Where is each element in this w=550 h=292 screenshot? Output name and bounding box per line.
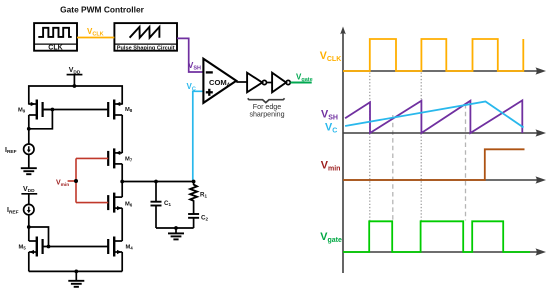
ground under IREF top [21, 168, 37, 174]
ground RC [168, 233, 184, 239]
capacitor C1 [151, 182, 172, 229]
node VC RC [192, 180, 196, 184]
node Vmin [74, 179, 78, 183]
svg-text:M7: M7 [125, 157, 133, 163]
svg-text:M9: M9 [18, 108, 26, 114]
node M7/M6 drain [120, 180, 124, 184]
transistor M8 [108, 100, 133, 120]
node C1 top [154, 180, 158, 184]
wire node rail to RC [122, 181, 193, 183]
transistor M9 [18, 100, 52, 120]
wire RC bottom rail [156, 227, 194, 229]
dashed line clk edge 2 [420, 73, 422, 221]
wire M7 drain to node [121, 164, 123, 197]
node gate M9 [51, 108, 55, 112]
svg-text:Gate PWM Controller: Gate PWM Controller [60, 5, 144, 15]
capacitor C2 [188, 214, 208, 228]
resistor R1 [190, 182, 207, 215]
wire to RC ground [175, 228, 177, 233]
dashed line crossing 1 [392, 115, 394, 221]
node RC ground [174, 226, 178, 230]
CLK block [34, 23, 77, 51]
wire M4 source to rail [121, 252, 123, 271]
waveform Vgate [343, 221, 530, 252]
VDD supply bottom [21, 186, 37, 205]
axis VSH/VC [343, 129, 546, 136]
current source IREF top [5, 144, 34, 155]
wire VC (cyan) [187, 82, 204, 182]
axis vertical [340, 27, 346, 274]
wire VSH (purple) [177, 38, 203, 72]
wire M5 diode loop [29, 227, 49, 247]
inverter 1 [247, 73, 266, 93]
wire VDD rail [29, 86, 122, 105]
VDD supply top [67, 67, 83, 86]
svg-text:sharpening: sharpening [249, 110, 284, 118]
node M9 drain [27, 127, 31, 131]
waveform VC ramp [345, 102, 523, 128]
wire IREF to ground [28, 154, 30, 168]
transistor M4 [108, 237, 133, 257]
current source IREF bottom [7, 204, 34, 215]
transistor M7 [108, 148, 133, 168]
wire M6 source to M4 drain [121, 208, 123, 241]
node VDD rail top [73, 84, 77, 88]
op-amp COM4 comparator [203, 59, 236, 103]
wire Vgate output (green) [290, 73, 312, 84]
wire M5 source to rail [28, 252, 30, 271]
waveform Vmin [343, 149, 525, 180]
node M5 drain [27, 225, 31, 229]
ground bottom rail [68, 281, 84, 287]
wire M8 drain to M7 source [121, 115, 123, 153]
wire VCLK [77, 27, 114, 38]
svg-text:CLK: CLK [48, 45, 62, 52]
transistor M6 [108, 193, 133, 213]
wire between inverters [267, 82, 273, 84]
svg-text:M5: M5 [19, 245, 27, 251]
transistor M5 [19, 237, 43, 257]
wire comparator output [236, 81, 247, 83]
node bottom rail [74, 270, 78, 274]
axis Vgate [343, 248, 546, 255]
wire IREF2 to M5 drain [28, 215, 30, 241]
dashed line clk edge 1 [369, 73, 371, 221]
wire Vmin red network [56, 158, 108, 202]
inverter 2 [272, 73, 290, 93]
dashed line crossing 2 [465, 104, 467, 221]
wire gate mirror M5-M4 [43, 246, 109, 248]
waveform VSH sawtooth [345, 100, 522, 133]
svg-text:M6: M6 [125, 202, 133, 208]
svg-text:M4: M4 [126, 245, 134, 251]
axis VCLK [343, 67, 546, 74]
brace for edge sharpening [248, 98, 285, 118]
waveform VCLK [343, 39, 523, 71]
pulse shaping circuit block [114, 23, 177, 51]
wire M9 diode loop [29, 110, 53, 129]
axis Vmin [343, 176, 546, 183]
wire M9 drain down [28, 115, 30, 144]
svg-text:M8: M8 [125, 107, 133, 113]
svg-text:Pulse Shaping Circuit: Pulse Shaping Circuit [117, 45, 175, 51]
node M5 gate [47, 245, 51, 249]
wire gate mirror M9-M8 [43, 109, 109, 111]
svg-text:COM4: COM4 [209, 78, 230, 88]
wire bottom rail [29, 270, 122, 272]
wire rail to ground [75, 271, 77, 280]
